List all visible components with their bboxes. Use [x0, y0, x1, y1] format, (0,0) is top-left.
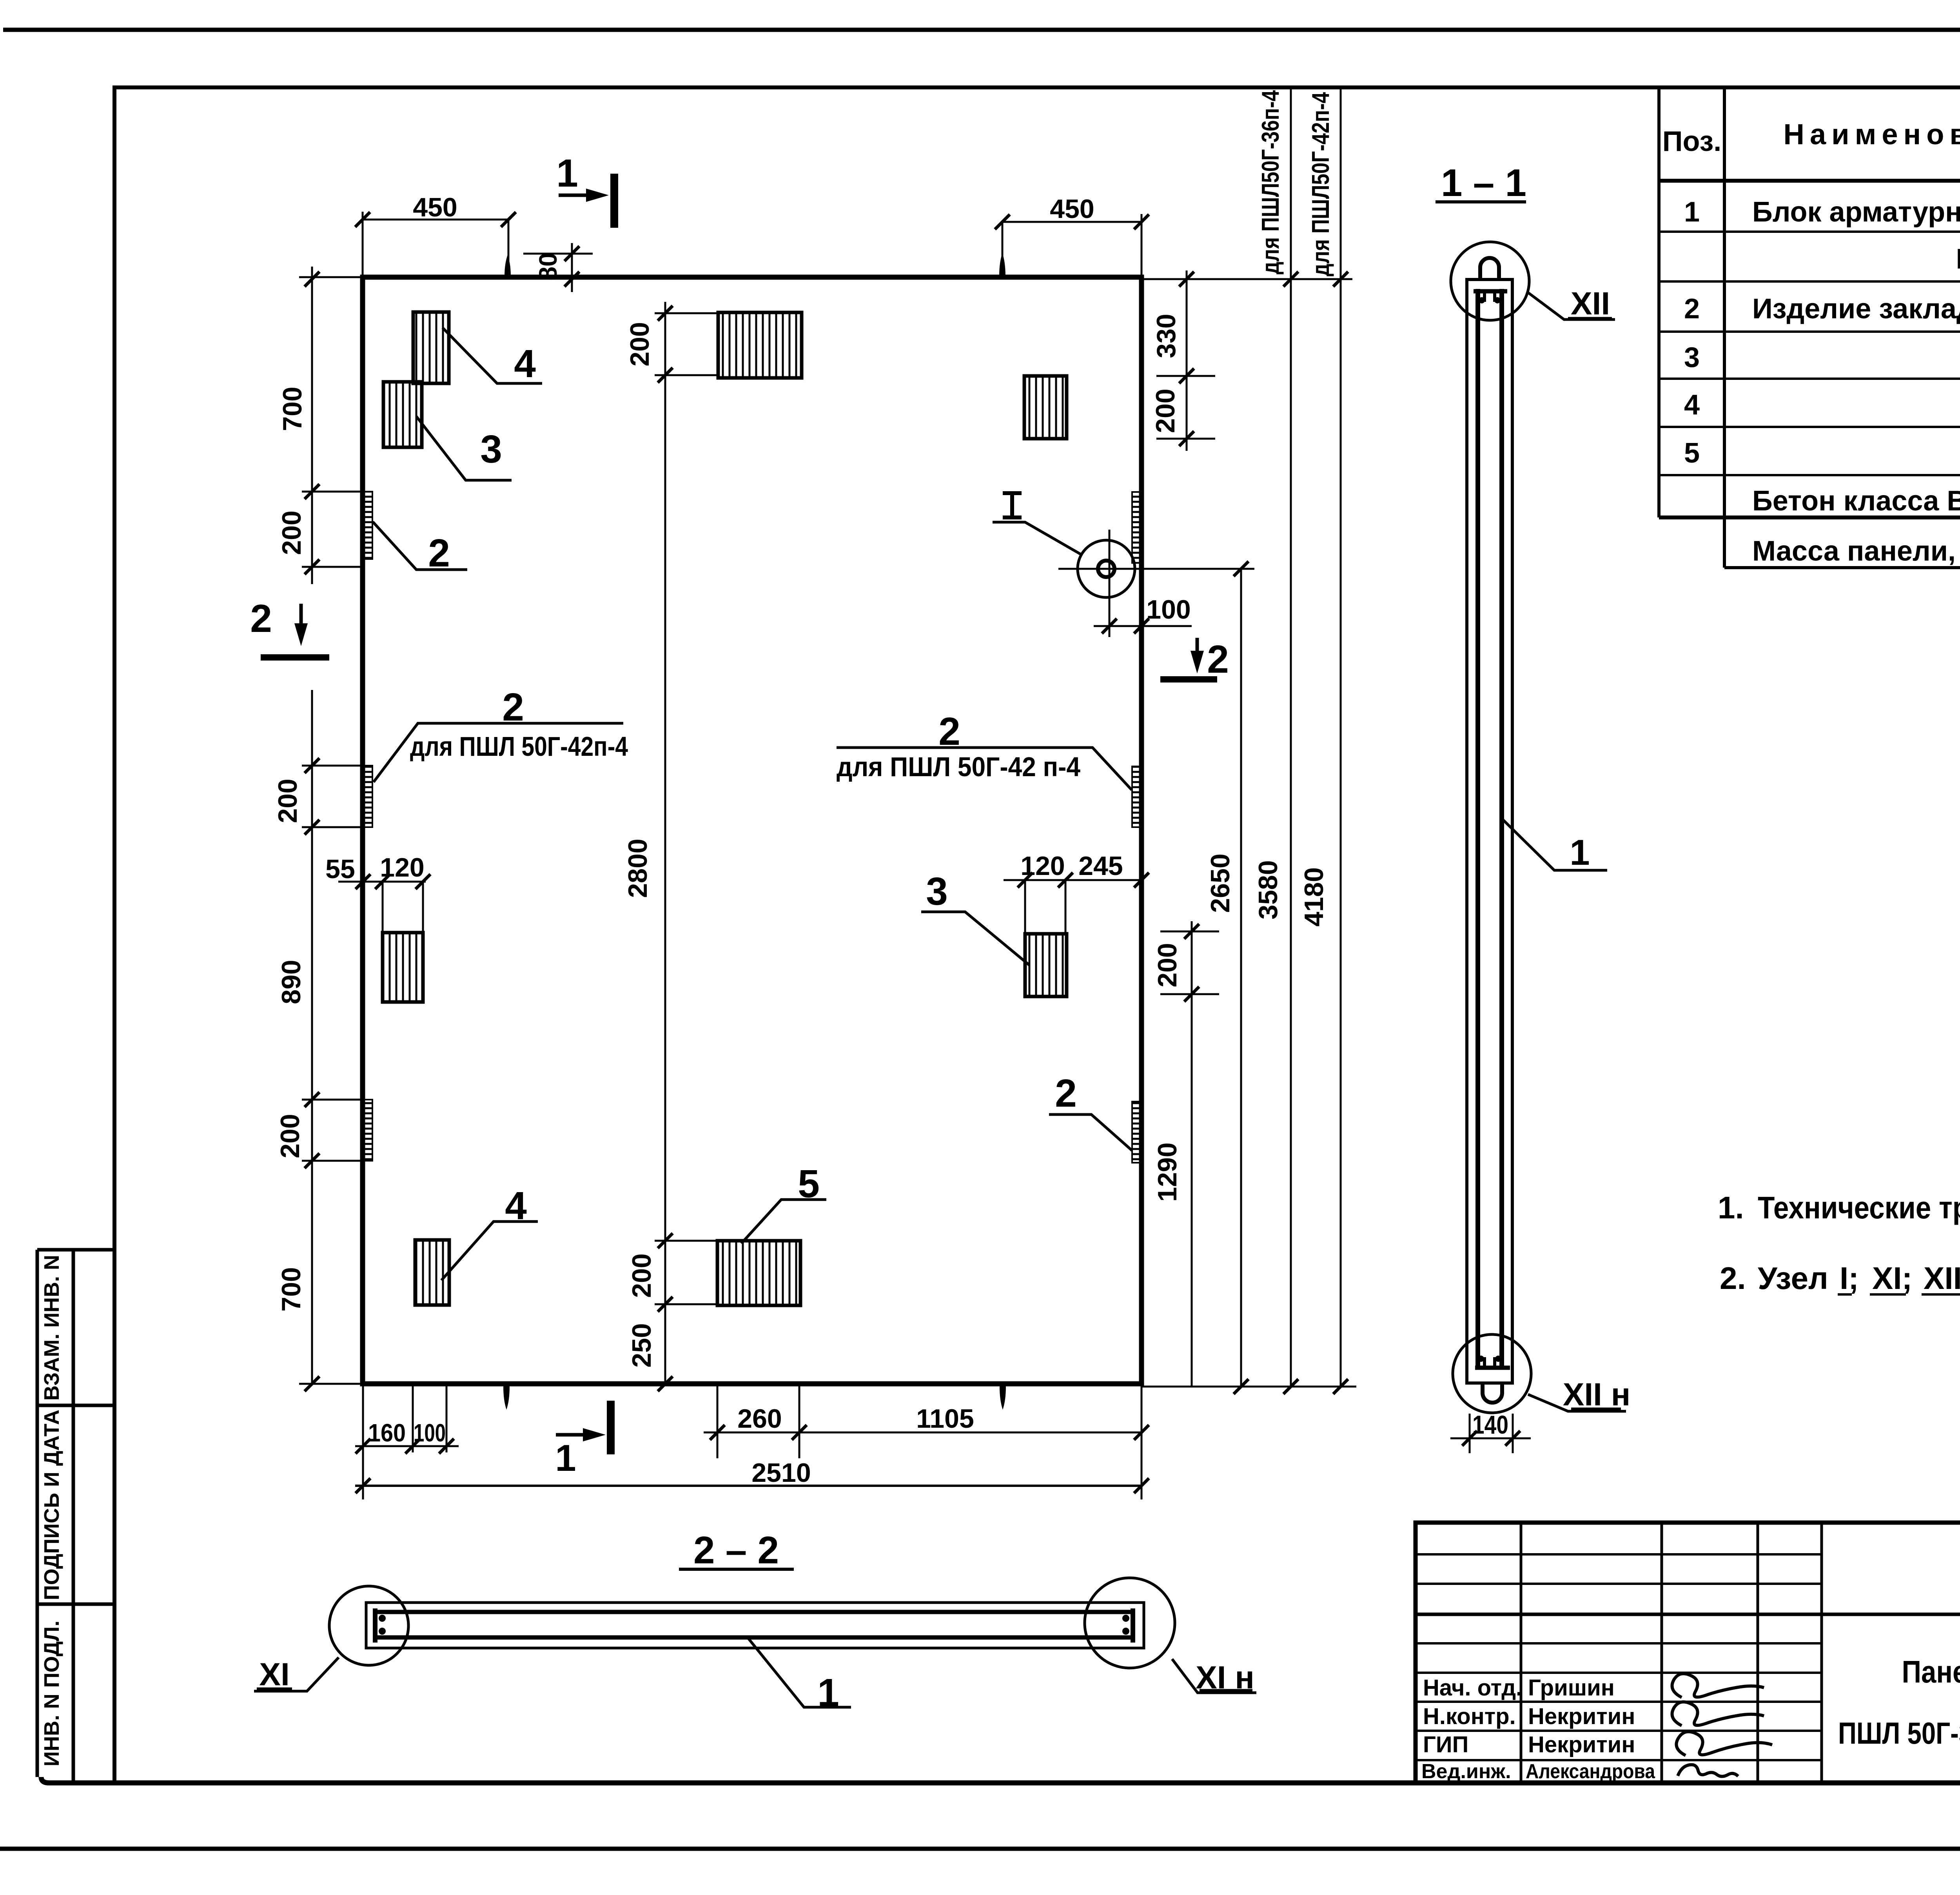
svg-text:Вед.инж.: Вед.инж. — [1421, 1760, 1511, 1783]
left dim texts — [273, 387, 307, 1311]
svg-text:450: 450 — [413, 192, 457, 222]
dims 55 120 — [338, 881, 426, 883]
svg-text:ИНВ. N ПОДЛ.: ИНВ. N ПОДЛ. — [40, 1621, 64, 1766]
svg-text:Наименование: Наименование — [1784, 118, 1960, 151]
svg-text:4: 4 — [514, 342, 536, 386]
svg-text:2: 2 — [428, 531, 450, 575]
bottom dims 160 100 — [355, 1445, 459, 1447]
svg-text:200: 200 — [625, 322, 655, 366]
embedded item 4 block top-left — [413, 312, 449, 383]
panel outline — [363, 277, 1142, 1384]
svg-text:330: 330 — [1151, 314, 1181, 358]
label 2 left-top — [373, 522, 467, 570]
left extension lines — [299, 277, 364, 1384]
svg-text:200: 200 — [1151, 388, 1180, 433]
svg-text:Гришин: Гришин — [1528, 1675, 1615, 1701]
detail circle XIn — [1085, 1578, 1175, 1668]
svg-text:200: 200 — [627, 1253, 657, 1298]
svg-text:120: 120 — [1020, 851, 1065, 881]
svg-text:2: 2 — [938, 710, 960, 753]
embedded item 5 block bottom-middle — [717, 1241, 800, 1305]
middle extension lines — [655, 313, 718, 1304]
svg-text:3: 3 — [1684, 342, 1700, 373]
lifting anchor mark bottom-left — [503, 1386, 510, 1410]
svg-text:100: 100 — [414, 1419, 446, 1447]
svg-text:890: 890 — [276, 960, 306, 1004]
svg-text:для ПШЛ 50Г-42 п-4: для ПШЛ 50Г-42 п-4 — [837, 751, 1080, 782]
edge plate MH1 left top — [363, 492, 372, 559]
svg-text:Блок арматурный БА 14: Блок арматурный БА 14 — [1752, 196, 1960, 228]
svg-text:200: 200 — [277, 510, 307, 555]
bottom shared extension line — [1142, 1386, 1356, 1388]
svg-text:100: 100 — [1146, 595, 1191, 624]
svg-text:ВЗАМ. ИНВ. N: ВЗАМ. ИНВ. N — [40, 1255, 64, 1401]
middle dimension chain line — [664, 302, 666, 1384]
dim 140 — [1470, 1414, 1513, 1453]
svg-text:140: 140 — [1472, 1410, 1508, 1439]
title block vertical lines — [1521, 1523, 1822, 1783]
parts table grid — [1659, 87, 1960, 568]
svg-text:2: 2 — [1684, 293, 1700, 325]
left stamp column boxes — [37, 1250, 114, 1783]
svg-text:2650: 2650 — [1205, 853, 1235, 913]
svg-text:250: 250 — [627, 1323, 657, 1367]
svg-text:Нач. отд.: Нач. отд. — [1423, 1675, 1522, 1701]
roles and names — [1421, 1675, 1655, 1783]
reinforcement block BA14 bars — [1478, 289, 1502, 1369]
svg-text:2: 2 — [502, 685, 524, 729]
edge plate MH1 right middle — [1132, 766, 1142, 827]
svg-text:ГИП: ГИП — [1423, 1732, 1468, 1757]
svg-text:80: 80 — [534, 252, 562, 280]
right dim chain 330 200 — [1186, 270, 1188, 451]
svg-text:1105: 1105 — [916, 1404, 974, 1434]
svg-text:XII: XII — [1924, 1261, 1960, 1296]
svg-text:2: 2 — [1207, 637, 1229, 681]
edge plate MH1 right top — [1132, 492, 1142, 563]
table row 7 concrete — [1752, 478, 1960, 517]
signature 3 — [1676, 1732, 1772, 1755]
label 3 top-left — [416, 416, 512, 480]
svg-text:200: 200 — [273, 779, 303, 823]
table row 5 — [1684, 389, 1960, 421]
embedded item 3 block top-left — [383, 382, 422, 447]
svg-text:120: 120 — [380, 853, 424, 882]
svg-text:5: 5 — [798, 1162, 820, 1206]
svg-text:для ПШЛ50Г-36п-4: для ПШЛ50Г-36п-4 — [1257, 90, 1284, 274]
svg-text:Изделие закладное МН1: Изделие закладное МН1 — [1752, 293, 1960, 325]
detail circle XIIn — [1453, 1334, 1531, 1413]
table row 2 — [1956, 243, 1960, 275]
title block horizontal lines left part — [1416, 1554, 1822, 1760]
svg-text:5: 5 — [1684, 437, 1700, 469]
label 4 top-left — [443, 328, 542, 383]
svg-text:3580: 3580 — [1253, 860, 1283, 919]
table row 1 — [1684, 196, 1960, 228]
label 5 bottom-middle — [741, 1200, 826, 1243]
svg-text:Поз.: Поз. — [1662, 126, 1722, 157]
bottom dim 2510 — [355, 1485, 1142, 1487]
dim line 4180 vertical — [1340, 87, 1342, 1387]
embedded item 5 block top-middle — [718, 312, 802, 378]
svg-text:ПОДПИСЬ И ДАТА: ПОДПИСЬ И ДАТА — [40, 1410, 64, 1600]
svg-text:1.: 1. — [1718, 1190, 1744, 1225]
sheet bottom scan line — [0, 1847, 1960, 1851]
bottom embedded plate — [1475, 1366, 1510, 1370]
right dim chain 200 1290 — [1191, 921, 1193, 1387]
svg-text:XI: XI — [259, 1657, 289, 1692]
svg-text:55: 55 — [325, 854, 355, 884]
edge plate MH1 right bottom — [1132, 1102, 1142, 1163]
section mark 1 bottom — [607, 1401, 615, 1454]
table row 3 — [1684, 293, 1960, 325]
dim line 2650 vertical — [1240, 569, 1242, 1387]
svg-text:1 – 1: 1 – 1 — [1441, 161, 1526, 204]
svg-text:ПШЛ 50Г-36п-4; ПШЛ 50Г-42п-4: ПШЛ 50Г-36п-4; ПШЛ 50Г-42п-4 — [1838, 1716, 1960, 1750]
lifting anchor mark top-left — [505, 255, 511, 277]
dim 100 — [1094, 625, 1192, 627]
svg-text:245: 245 — [1078, 851, 1123, 881]
table row 8 mass — [1752, 535, 1960, 567]
edge plate MH1 left middle — [363, 766, 372, 827]
svg-text:2800: 2800 — [623, 839, 653, 898]
dims 120 245 right — [1004, 879, 1144, 881]
table header texts — [1662, 95, 1960, 181]
svg-text:1: 1 — [1570, 833, 1590, 873]
svg-text:4: 4 — [1684, 389, 1700, 421]
svg-text:XI;: XI; — [1872, 1261, 1912, 1296]
svg-text:2 – 2: 2 – 2 — [693, 1528, 779, 1572]
svg-text:Н.контр.: Н.контр. — [1423, 1704, 1516, 1729]
svg-text:I;: I; — [1840, 1261, 1859, 1296]
detail circle XI — [329, 1586, 408, 1665]
svg-text:1: 1 — [817, 1671, 839, 1715]
lifting loop top — [1480, 258, 1499, 280]
svg-text:Технические требования см.: Технические требования см. 1.089.1- 2.1 … — [1758, 1190, 1960, 1225]
right top extension line — [1142, 278, 1352, 280]
section 2-2 panel outline — [366, 1603, 1144, 1648]
svg-text:160: 160 — [368, 1419, 406, 1447]
signature 2 — [1672, 1702, 1764, 1726]
bottom dims 260 1105 — [704, 1432, 1142, 1434]
label 4 bottom-left — [441, 1222, 538, 1280]
svg-text:для ПШЛ 50Г-42п-4: для ПШЛ 50Г-42п-4 — [410, 731, 628, 762]
svg-text:3: 3 — [480, 427, 502, 471]
svg-text:Бетон класса В 15, м: Бетон класса В 15, м — [1752, 485, 1960, 517]
svg-text:700: 700 — [276, 1267, 306, 1311]
svg-text:700: 700 — [278, 387, 307, 431]
svg-text:Некритин: Некритин — [1528, 1704, 1635, 1729]
label 3 mid-right — [921, 912, 1029, 965]
top embedded plate — [1474, 289, 1507, 294]
sheet top scan line — [3, 28, 1960, 32]
lifting anchor mark top-right — [999, 253, 1005, 277]
svg-text:1290: 1290 — [1152, 1142, 1182, 1202]
svg-text:XII н: XII н — [1563, 1377, 1631, 1412]
section 1-1 panel outline — [1467, 280, 1512, 1383]
embedded item 3 block mid-right — [1025, 934, 1067, 997]
svg-text:260: 260 — [737, 1404, 782, 1434]
signature 4 — [1678, 1765, 1738, 1777]
svg-text:для ПШЛ50Г-42п-4: для ПШЛ50Г-42п-4 — [1307, 92, 1334, 276]
svg-text:200: 200 — [275, 1114, 305, 1158]
detail circle XII — [1451, 242, 1529, 320]
svg-text:1: 1 — [555, 1437, 576, 1479]
middle dim texts — [623, 322, 657, 1367]
svg-text:БА 15: БА 15 — [1956, 243, 1960, 275]
node I detail circle — [1078, 540, 1135, 597]
svg-text:2: 2 — [250, 597, 272, 641]
svg-text:Масса панели, т: Масса панели, т — [1752, 535, 1960, 567]
svg-text:3: 3 — [926, 869, 948, 913]
svg-text:XII: XII — [1571, 286, 1610, 321]
reinforcement block bars — [373, 1612, 1134, 1637]
edge plate MH1 left bottom — [363, 1100, 372, 1161]
lifting anchor mark bottom-right — [1000, 1386, 1006, 1410]
embedded item 3 block mid-left — [383, 933, 423, 1002]
dim 80 — [523, 243, 593, 292]
svg-text:1: 1 — [1684, 196, 1700, 228]
dim line 450 right — [1002, 221, 1142, 223]
svg-text:2.: 2. — [1720, 1261, 1746, 1296]
svg-text:Некритин: Некритин — [1528, 1732, 1635, 1757]
svg-text:Александрова: Александрова — [1526, 1760, 1655, 1783]
note 2 underlines for roman numerals — [1838, 1293, 1960, 1296]
svg-text:200: 200 — [1152, 943, 1182, 987]
section mark 1 top — [610, 174, 618, 228]
top extension lines — [363, 212, 1142, 277]
title block outer box — [1416, 1523, 1960, 1783]
svg-text:2: 2 — [1055, 1071, 1077, 1115]
dim line 3580 vertical — [1290, 87, 1292, 1387]
svg-text:Узел: Узел — [1758, 1261, 1828, 1296]
svg-text:4180: 4180 — [1299, 867, 1329, 926]
table row 4 — [1684, 342, 1960, 373]
table row 6 — [1684, 437, 1960, 469]
frame bottom line — [41, 1777, 1960, 1783]
lifting loop bottom — [1483, 1383, 1502, 1403]
label 1 leader — [1503, 819, 1607, 870]
label 2 for PShL50G-42p-4 left — [374, 723, 623, 782]
signature 1 — [1672, 1674, 1764, 1697]
node I marker — [1003, 493, 1022, 517]
embedded item 2 block top-right — [1024, 376, 1067, 439]
svg-text:4: 4 — [505, 1184, 527, 1228]
svg-text:1: 1 — [556, 151, 578, 195]
svg-text:450: 450 — [1050, 194, 1094, 224]
label 2 for PShL50G-42p-4 right — [837, 748, 1132, 790]
left dimension chain line — [311, 267, 313, 1384]
embedded item 4 block bottom-left — [415, 1240, 449, 1305]
svg-text:2510: 2510 — [751, 1458, 811, 1488]
label 2 right-bottom — [1049, 1114, 1132, 1151]
svg-text:Панель шахты лифта: Панель шахты лифта — [1902, 1654, 1960, 1689]
label 1 leader — [748, 1637, 851, 1707]
dim line 450 left — [363, 219, 508, 221]
